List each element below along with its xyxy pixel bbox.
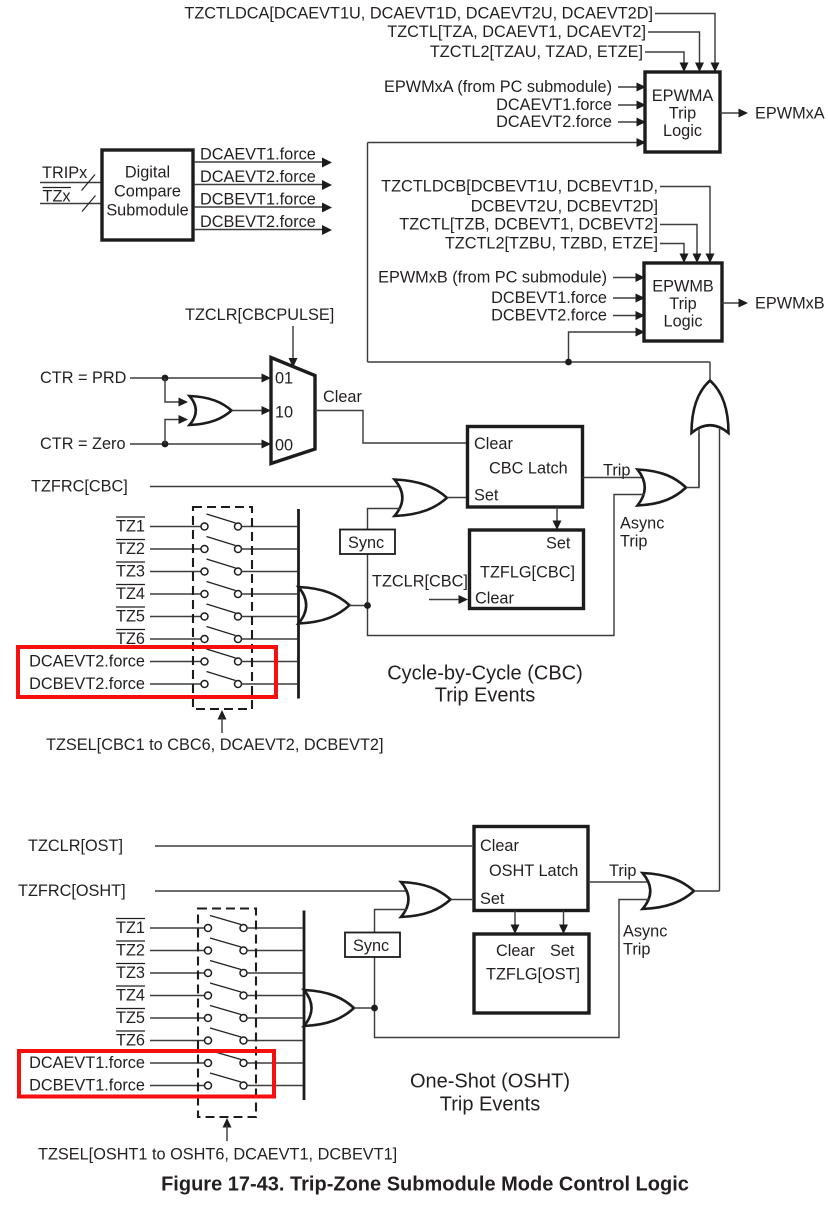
wire trip signal into EPWMB bottom input [569,332,637,362]
wire TZSEL OSHT pointer [226,1125,228,1141]
svg-text:TZSEL[OSHT1 to OSHT6, DCAEVT1,: TZSEL[OSHT1 to OSHT6, DCAEVT1, DCBEVT1] [38,1146,397,1164]
wire sync riser CBC (dot to OR) [368,509,401,606]
switch CBC DCBEVT2.force right contact [235,681,242,688]
overline CBC TZ2 [116,539,145,541]
wire DCAEVT1.force out [194,161,323,163]
switch OSHT TZ3 left contact [205,970,212,977]
svg-text:TZFRC[OSHT]: TZFRC[OSHT] [18,882,126,900]
wire TZCLR[CBC] arrow [429,599,459,601]
svg-text:EPWMxA (from PC submodule): EPWMxA (from PC submodule) [384,78,612,96]
junction CBC TZ OR output [364,602,371,609]
block TZFLG[CBC] [470,530,584,609]
wire CBC DCAEVT2.force to switch [150,661,201,663]
wire EPWMxB output [722,302,739,304]
wire OSHT TZ2 to OR bus [247,950,303,952]
svg-text:One-Shot (OSHT): One-Shot (OSHT) [410,1071,570,1093]
svg-text:Logic: Logic [664,313,703,331]
switch OSHT TZ3 right contact [240,970,247,977]
switch CBC TZ4 blade [207,582,236,591]
svg-text:TZ2: TZ2 [116,540,145,558]
bus slash TZx [82,196,96,212]
switch OSHT TZ2 left contact [205,947,212,954]
svg-text:Clear: Clear [496,942,535,960]
switch OSHT TZ2 right contact [240,947,247,954]
switch CBC TZ6 left contact [201,636,208,643]
wire EPWMxA output [720,112,739,114]
overline OSHT TZ6 [116,1030,145,1032]
arrowhead into TZFLG[OST] set [559,925,568,935]
wire DCBEVT2.force out [194,229,323,231]
switch OSHT TZ4 left contact [205,992,212,999]
wire CBC TZ2 to OR bus [242,548,298,550]
bus slash TRIPx [82,175,96,191]
arrowhead EPWMxB input [636,273,646,282]
switch OSHT TZ4 blade [210,983,241,992]
svg-text:TZ3: TZ3 [116,964,145,982]
wire CBC TZ4 to switch [150,593,201,595]
wire TZCTL B to EPWMB [660,225,697,256]
red highlight box OSHT [19,1051,274,1097]
svg-text:EPWMxB (from PC submodule): EPWMxB (from PC submodule) [378,269,607,287]
switch OSHT TZ6 right contact [240,1037,247,1044]
switch CBC TZ3 left contact [201,568,208,575]
switch CBC TZ2 left contact [201,546,208,553]
arrowhead DCAEVT2.force out [322,180,332,190]
svg-text:CTR = Zero: CTR = Zero [40,435,126,453]
svg-text:Clear: Clear [323,388,362,406]
arrowhead trip into EPWMA [637,138,647,147]
svg-text:Sync: Sync [353,937,389,955]
svg-text:Figure 17-43. Trip-Zone Submod: Figure 17-43. Trip-Zone Submodule Mode C… [161,1174,689,1196]
wire CTR=PRD to mux 01 [130,377,262,379]
svg-text:Trip: Trip [609,862,636,880]
block CBC Latch [468,427,583,508]
switch OSHT TZ5 right contact [240,1015,247,1022]
switch OSHT DCAEVT1.force left contact [205,1060,212,1067]
svg-text:TZCLR[CBC]: TZCLR[CBC] [372,573,468,591]
switch CBC TZ4 left contact [201,591,208,598]
svg-text:01: 01 [275,370,293,388]
arrowhead DCBEVT1.force out [322,203,332,213]
wire CBC set OR to latch [447,497,467,499]
switch CBC TZ1 right contact [235,523,242,530]
wire CBC TZ6 to OR bus [242,638,298,640]
wire DCBEVT1.force input [613,297,636,299]
wire OSHT set OR to latch [451,899,473,901]
wire CBC trip to async OR [583,477,646,479]
wire CBC DCAEVT2.force to OR bus [242,661,298,663]
arrowhead trip into EPWMB [636,328,646,337]
svg-text:DCBEVT1.force: DCBEVT1.force [29,1077,145,1095]
or-gate CBC async trip [638,470,687,506]
mux CBC clear-pulse selector [271,358,315,464]
wire CBC TZ1 to switch [150,526,201,528]
junction CTR=PRD [162,375,169,382]
arrowhead DCAEVT2.force input [637,118,647,127]
svg-text:DCBEVT2U, DCBEVT2D]: DCBEVT2U, DCBEVT2D] [471,198,658,216]
wire OSHT TZ4 to switch [150,995,205,997]
wire CBC latch to TZFLG [556,507,558,522]
svg-text:DCAEVT2.force: DCAEVT2.force [29,653,145,671]
arrowhead DCAEVT1.force out [322,158,332,168]
svg-text:Trip Events: Trip Events [440,1094,540,1116]
svg-text:EPWMB: EPWMB [652,278,714,296]
overline CBC TZ4 [116,584,145,586]
switch CBC TZ1 blade [207,514,236,523]
wire OSHT TZ1 to switch [150,927,205,929]
switch OSHT TZ2 blade [210,938,241,947]
switch CBC TZ6 blade [207,627,236,636]
arrowhead into OR bottom [179,415,189,424]
switch CBC TZ3 right contact [235,568,242,575]
svg-text:DCBEVT2.force: DCBEVT2.force [29,675,145,693]
svg-text:CBC Latch: CBC Latch [489,460,568,478]
wire CBC async return path [368,495,646,636]
or-gate OSHT async trip [643,873,695,909]
wire TZCLR[CBCPULSE] to mux select [292,326,294,359]
wire TZCTL to EPWMA [648,32,700,64]
overline OSHT TZ4 [116,985,145,987]
wire OSHT DCAEVT1.force to switch [150,1062,205,1064]
wire OSHT TZ OR output to junction [354,1007,375,1009]
overline CBC TZ6 [116,629,145,631]
wire OSHT async return path [375,900,651,1038]
svg-text:EPWMxB: EPWMxB [755,295,825,313]
wire TZCTL2 to EPWMA [645,52,684,64]
switch CBC TZ6 right contact [235,636,242,643]
wire OR to mux 10 [232,410,263,412]
wire DCBEVT2.force input [613,315,636,317]
svg-text:DCBEVT1.force: DCBEVT1.force [200,191,316,209]
svg-text:TZ5: TZ5 [116,608,145,626]
wire CBC TZ OR output to junction [350,605,368,607]
wire OSHT latch to TZFLG set [563,911,565,927]
switch OSHT DCBEVT1.force left contact [205,1082,212,1089]
switch OSHT TZ4 right contact [240,992,247,999]
switch CBC TZ2 right contact [235,546,242,553]
switch OSHT TZ1 blade [210,916,241,925]
wire big OR output to rail [709,362,711,381]
switch OSHT DCBEVT1.force blade [210,1073,241,1082]
wire OSHT DCBEVT1.force to switch [150,1085,205,1087]
switch CBC TZ5 blade [207,604,236,613]
junction OSHT TZ OR output [371,1005,378,1012]
wire OSHT TZ2 to switch [150,950,205,952]
switch OSHT TZ1 right contact [240,925,247,932]
wire OSHT latch to TZFLG clear [514,911,516,927]
wire EPWMxB input [613,277,636,279]
switch OSHT TZ5 left contact [205,1015,212,1022]
wire trip rail horizontal [368,361,711,363]
svg-text:Clear: Clear [475,590,514,608]
wire big OR left input stub [698,429,700,488]
svg-text:TZFRC[CBC]: TZFRC[CBC] [31,478,128,496]
wire CBC TZ5 to switch [150,616,201,618]
svg-text:TZ6: TZ6 [116,1032,145,1050]
wire TZCTLDCB to EPWMB [660,187,710,256]
svg-text:EPWMA: EPWMA [652,87,714,105]
overline TZx [43,187,72,189]
arrowhead TZCTLDCA into EPWMA [711,63,720,73]
wire CBC DCBEVT2.force to OR bus [242,683,298,685]
switch OSHT DCAEVT1.force right contact [240,1060,247,1067]
wire TZCLR[OST] to OSHT latch clear [155,845,472,847]
wire OSHT TZ5 to switch [150,1017,205,1019]
svg-text:DCAEVT1.force: DCAEVT1.force [496,96,612,114]
wire CBC TZ3 to OR bus [242,571,298,573]
wire CTR=Zero to mux 00 [130,443,262,445]
block EPWMA Trip Logic U1 [645,72,720,152]
svg-text:Logic: Logic [663,122,702,140]
svg-text:DCAEVT2.force: DCAEVT2.force [200,168,316,186]
switch CBC DCAEVT2.force left contact [201,658,208,665]
svg-text:TZ5: TZ5 [116,1009,145,1027]
svg-text:TZFLG[CBC]: TZFLG[CBC] [480,564,575,582]
red highlight box CBC [18,647,276,697]
wire OSHT TZ3 to switch [150,972,205,974]
switch CBC DCBEVT2.force blade [207,672,236,681]
svg-text:10: 10 [275,404,293,422]
svg-text:TZ3: TZ3 [116,563,145,581]
switch CBC TZ2 blade [207,537,236,546]
svg-text:DCAEVT2.force: DCAEVT2.force [496,113,612,131]
overline OSHT TZ1 [116,918,145,920]
wire CBC TZ3 to switch [150,571,201,573]
svg-text:TZCTL2[TZAU, TZAD, ETZE]: TZCTL2[TZAU, TZAD, ETZE] [430,43,643,61]
or-gate big OR (CBC+OSHT trips) pointing up [692,381,729,434]
wire DCBEVT1.force out [194,206,323,208]
wire OSHT TZ6 to OR bus [247,1040,303,1042]
svg-text:Set: Set [550,942,575,960]
junction CTR=Zero [162,441,169,448]
wire sync riser OSHT [375,910,408,1009]
svg-text:Digital: Digital [125,164,170,182]
wire CBC TZ2 to switch [150,548,201,550]
dashed box TZSEL OSHT switches [198,909,256,1118]
svg-text:Async: Async [620,515,664,533]
arrowhead DCBEVT2.force input [636,311,646,320]
wire CBC TZ1 to OR bus [242,526,298,528]
wire OSHT TZ6 to switch [150,1040,205,1042]
wire OSHT TZ1 to OR bus [247,927,303,929]
wire trip signal into EPWMA bottom input [368,142,638,144]
svg-text:DCBEVT2.force: DCBEVT2.force [491,307,607,325]
arrowhead into TZFLG[OST] clear [511,925,520,935]
arrowhead DCAEVT1.force input [637,101,647,110]
svg-text:Trip: Trip [620,533,647,551]
arrowhead into TZFLG[CBC] [553,521,562,531]
overline OSHT TZ3 [116,963,145,965]
svg-text:TZ1: TZ1 [116,518,145,536]
svg-text:Submodule: Submodule [106,202,188,220]
block EPWMB Trip Logic U2 [644,263,722,341]
svg-text:Set: Set [474,487,499,505]
switch OSHT TZ1 left contact [205,925,212,932]
svg-text:Compare: Compare [114,183,181,201]
svg-text:DCBEVT1.force: DCBEVT1.force [491,289,607,307]
svg-text:Set: Set [546,535,571,553]
svg-text:TZCTL[TZA, DCAEVT1, DCAEVT2]: TZCTL[TZA, DCAEVT1, DCAEVT2] [387,23,646,41]
or-gate OSHT TZ events [304,990,354,1026]
wire DCAEVT1.force input [618,104,637,106]
wire mux output to CBC latch clear [315,411,467,444]
switch CBC TZ1 left contact [201,523,208,530]
svg-text:TZCTLDCA[DCAEVT1U, DCAEVT1D, D: TZCTLDCA[DCAEVT1U, DCAEVT1D, DCAEVT2U, D… [184,5,653,23]
switch CBC TZ5 right contact [235,613,242,620]
or-gate PRD/Zero [190,396,232,425]
svg-text:TZCLR[CBCPULSE]: TZCLR[CBCPULSE] [185,306,334,324]
arrowhead TZCTL into EPWMA [695,63,704,73]
switch OSHT DCBEVT1.force right contact [240,1082,247,1089]
arrowhead EPWMxA input [637,83,647,92]
arrowhead mux select [289,358,298,368]
switch OSHT TZ5 blade [210,1006,241,1015]
svg-text:Clear: Clear [480,837,519,855]
arrowhead TZCTLDCB into EPWMB [706,254,715,264]
block OSHT Latch [474,827,588,911]
svg-text:EPWMxA: EPWMxA [755,105,825,123]
svg-text:Async: Async [623,923,667,941]
switch CBC DCAEVT2.force blade [207,649,236,658]
wire CBC TZ6 to switch [150,638,201,640]
arrowhead TZCTL B into EPWMB [693,254,702,264]
wire CBC TZ5 to OR bus [242,616,298,618]
overline CBC TZ1 [116,516,145,518]
wire CTR=Zero branch to OR [165,420,179,445]
switch CBC DCAEVT2.force right contact [235,658,242,665]
block Sync OSHT [345,933,400,958]
svg-text:Set: Set [480,890,505,908]
or-gate CBC set [395,480,448,517]
svg-text:DCAEVT1.force: DCAEVT1.force [200,146,316,164]
wire OSHT TZ4 to OR bus [247,995,303,997]
arrowhead into OR top [179,398,189,407]
svg-text:Trip Events: Trip Events [435,685,535,707]
block Digital Compare Submodule [102,150,193,240]
svg-text:TZ4: TZ4 [116,987,145,1005]
arrowhead into mux 00 [262,440,272,449]
svg-text:Clear: Clear [474,435,513,453]
switch OSHT TZ6 blade [210,1028,241,1037]
block TZFLG[OST] [474,934,589,1013]
overline CBC TZ3 [116,561,145,563]
arrowhead DCBEVT2.force out [322,225,332,235]
or-gate OSHT set [401,882,451,917]
wire DCAEVT2.force out [194,184,323,186]
svg-text:TZSEL[CBC1 to CBC6, DCAEVT2, D: TZSEL[CBC1 to CBC6, DCAEVT2, DCBEVT2] [46,736,383,754]
svg-text:Cycle-by-Cycle (CBC): Cycle-by-Cycle (CBC) [387,663,583,685]
wire TZSEL CBC pointer [221,717,223,733]
overline CBC TZ5 [116,606,145,608]
svg-text:00: 00 [275,437,293,455]
wire CBC TZ4 to OR bus [242,593,298,595]
svg-text:TZ1: TZ1 [116,919,145,937]
wire CTR=PRD branch to OR [165,378,179,402]
arrowhead EPWMxB output [739,299,749,308]
arrowhead TZSEL OSHT pointer [223,1118,232,1128]
switch OSHT TZ6 left contact [205,1037,212,1044]
arrowhead TZCLR[CBC] into TZFLG [459,595,469,604]
switch CBC TZ4 right contact [235,591,242,598]
wire OSHT TZ5 to OR bus [247,1017,303,1019]
switch CBC DCBEVT2.force left contact [201,681,208,688]
svg-text:OSHT Latch: OSHT Latch [489,862,578,880]
svg-text:Trip: Trip [669,295,696,313]
svg-text:TZFLG[OST]: TZFLG[OST] [486,966,580,984]
dashed box TZSEL CBC switches [193,507,252,709]
arrowhead into mux 10 [262,406,272,415]
wire trip rail vertical to EPWMA [367,143,369,363]
svg-text:TRIPx: TRIPx [42,164,87,182]
svg-text:DCBEVT2.force: DCBEVT2.force [200,213,316,231]
wire OSHT async OR to big OR [694,890,720,892]
wire OSHT DCBEVT1.force to OR bus [247,1085,303,1087]
overline OSHT TZ5 [116,1008,145,1010]
svg-text:DCAEVT1.force: DCAEVT1.force [29,1054,145,1072]
svg-text:TZCLR[OST]: TZCLR[OST] [28,837,123,855]
wire OSHT TZ3 to OR bus [247,972,303,974]
switch OSHT DCAEVT1.force blade [210,1051,241,1060]
wire CBC DCBEVT2.force to switch [150,683,201,685]
wire TRIPx into Digital Compare [40,182,101,184]
overline OSHT TZ2 [116,940,145,942]
wire CBC async OR to big OR [686,433,699,488]
bus bar OSHT OR input [303,911,306,1101]
block Sync CBC [340,530,395,555]
or-gate CBC TZ events [299,587,350,624]
arrowhead TZCTL2 B into EPWMB [680,254,689,264]
svg-text:Sync: Sync [348,534,384,552]
svg-text:TZ2: TZ2 [116,942,145,960]
bus bar CBC OR input [297,509,300,699]
wire OSHT DCAEVT1.force to OR bus [247,1062,303,1064]
wire TZFRC[OSHT] to set OR [155,890,407,892]
svg-text:CTR = PRD: CTR = PRD [40,369,126,387]
switch OSHT TZ3 blade [210,961,241,970]
svg-text:TZ4: TZ4 [116,585,145,603]
wire TZFRC[CBC] to set OR [150,486,400,488]
wire OSHT trip to async OR [588,881,650,883]
arrowhead EPWMxA output [739,109,749,118]
wire DCAEVT2.force input [618,121,637,123]
wire TZx into Digital Compare [40,203,101,205]
svg-text:Trip: Trip [669,105,696,123]
wire big OR right input from OSHT async [719,429,721,891]
svg-text:Trip: Trip [623,941,650,959]
arrowhead TZSEL CBC pointer [218,710,227,720]
arrowhead into mux 01 [262,374,272,383]
svg-text:TZCTL2[TZBU, TZBD, ETZE]: TZCTL2[TZBU, TZBD, ETZE] [445,235,658,253]
junction trip rail to EPWMB [565,359,572,366]
svg-text:TZCTL[TZB, DCBEVT1, DCBEVT2]: TZCTL[TZB, DCBEVT1, DCBEVT2] [399,216,658,234]
switch CBC TZ5 left contact [201,613,208,620]
arrowhead DCBEVT1.force input [636,294,646,303]
switch CBC TZ3 blade [207,559,236,568]
wire TZCTLDCA to EPWMA [655,14,715,65]
arrowhead TZCTL2 into EPWMA [680,63,689,73]
wire TZCTL2 B to EPWMB [660,244,684,256]
wire EPWMxA input [618,86,637,88]
svg-text:TZCTLDCB[DCBEVT1U, DCBEVT1D,: TZCTLDCB[DCBEVT1U, DCBEVT1D, [381,178,658,196]
